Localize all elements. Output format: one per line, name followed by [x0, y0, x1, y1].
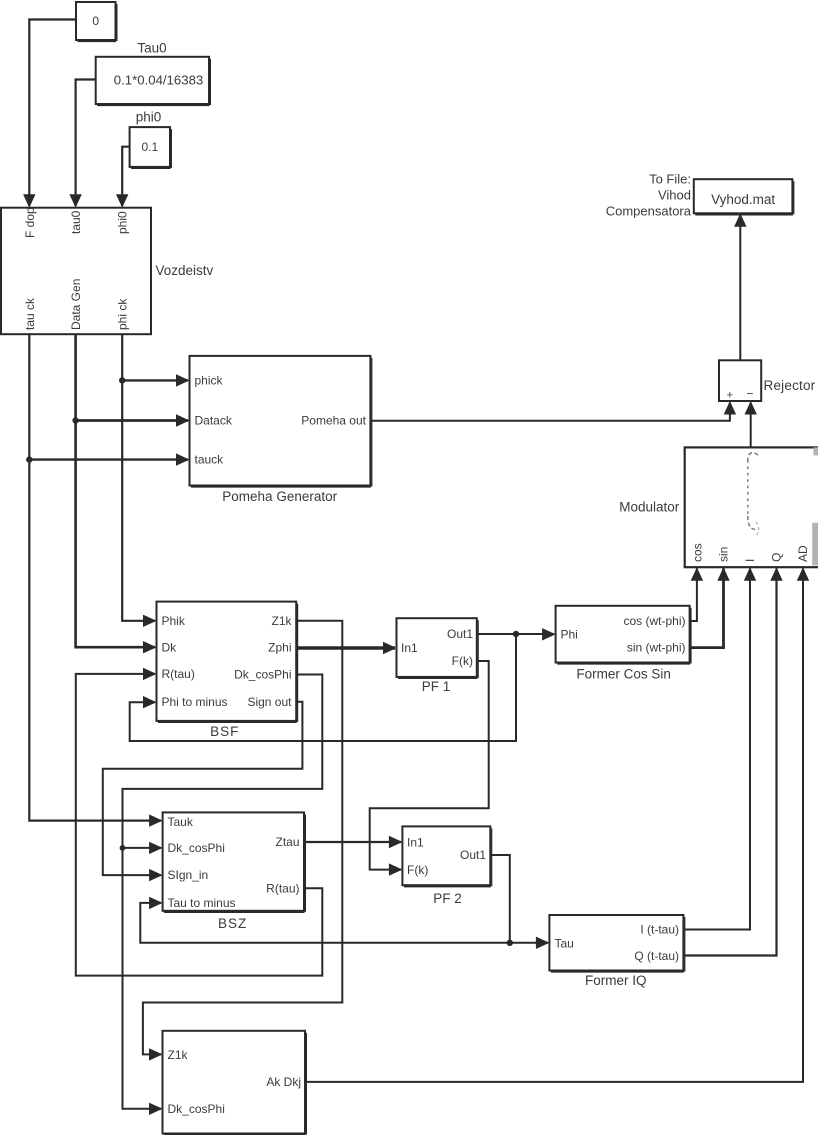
- svg-text:BSZ: BSZ: [218, 916, 247, 931]
- svg-text:Pomeha Generator: Pomeha Generator: [222, 489, 337, 504]
- svg-text:−: −: [746, 387, 753, 401]
- wire BSF Dk_cosPhi to BSZ and Ak Dkj block: [123, 675, 323, 1116]
- svg-text:Dk: Dk: [162, 640, 178, 654]
- svg-text:Vozdeistv: Vozdeistv: [156, 263, 214, 278]
- wire branch Dk_cosPhi to BSZ Dk_cosPhi: [123, 842, 163, 854]
- sum block Rejector with + - inputs: [719, 360, 816, 401]
- svg-text:R(tau): R(tau): [266, 881, 299, 895]
- Modulator dashed waveform icon: [748, 453, 759, 535]
- svg-text:I (t-tau): I (t-tau): [640, 922, 679, 936]
- svg-text:Tau0: Tau0: [137, 41, 166, 56]
- svg-text:Z1k: Z1k: [271, 614, 292, 628]
- wire Vozdeistv phi ck trunk to BSF Phik: [122, 334, 156, 627]
- junction node PF2 Out1: [507, 940, 513, 946]
- svg-text:Sign out: Sign out: [247, 695, 292, 709]
- junction node phi ck: [119, 377, 125, 383]
- svg-text:Out1: Out1: [447, 627, 473, 641]
- svg-text:sin: sin: [717, 547, 731, 562]
- wire Former IQ Q to Modulator Q: [683, 567, 782, 955]
- svg-text:Modulator: Modulator: [619, 500, 680, 515]
- svg-text:Ak Dkj: Ak Dkj: [266, 1075, 301, 1089]
- subsystem PF 2: [402, 826, 491, 906]
- wire PF1 F(k) to PF2 F(k): [370, 661, 489, 876]
- svg-text:Rejector: Rejector: [764, 378, 816, 393]
- svg-text:Dk_cosPhi: Dk_cosPhi: [234, 668, 291, 682]
- junction node PF1 Out1: [513, 631, 519, 637]
- junction node Dk_cosPhi: [120, 845, 126, 851]
- svg-text:I: I: [743, 559, 757, 562]
- wire Former Cos Sin cos to Modulator cos: [690, 567, 704, 621]
- svg-text:PF 2: PF 2: [433, 891, 462, 906]
- svg-text:Dk_cosPhi: Dk_cosPhi: [168, 1102, 225, 1116]
- svg-text:phick: phick: [195, 374, 224, 388]
- wire Modulator out to Rejector minus: [745, 401, 757, 447]
- wire Vozdeistv Data Gen trunk to BSF Dk: [76, 334, 157, 653]
- To File block Vyhod.mat: [694, 179, 794, 215]
- wire Vozdeistv tau ck trunk to BSZ Tauk: [29, 334, 162, 827]
- svg-text:Vihod: Vihod: [658, 188, 691, 203]
- svg-text:tau0: tau0: [69, 210, 83, 234]
- svg-text:Out1: Out1: [460, 848, 486, 862]
- svg-text:Former Cos Sin: Former Cos Sin: [576, 667, 671, 682]
- wire Ak Dkj to Modulator AD: [305, 567, 809, 1082]
- svg-text:Data Gen: Data Gen: [69, 279, 83, 330]
- wire BSZ R(tau) feedback to BSF R(tau): [76, 668, 322, 976]
- subsystem Former Cos Sin: [556, 606, 691, 682]
- wire branch PF1 Out1 feedback to BSF Phi to minus: [130, 634, 516, 741]
- subsystem Ak Dkj (bottom block): [163, 1031, 307, 1135]
- svg-text:Phi to minus: Phi to minus: [162, 695, 228, 709]
- subsystem Pomeha Generator: [190, 356, 372, 504]
- wire Former IQ I to Modulator I: [683, 567, 756, 929]
- svg-text:Phik: Phik: [162, 614, 186, 628]
- svg-text:Former IQ: Former IQ: [585, 973, 647, 988]
- svg-text:F dop: F dop: [23, 207, 37, 238]
- wire BSF Zphi to PF1 In1: [296, 642, 396, 654]
- scrollbar fragment top: [813, 447, 818, 455]
- wire Rejector to Vyhod.mat: [734, 213, 746, 360]
- wire constant 0 to Vozdeistv F dop: [23, 20, 76, 208]
- svg-text:To File:: To File:: [649, 172, 691, 187]
- svg-text:Compensatora: Compensatora: [606, 204, 692, 219]
- svg-text:F(k): F(k): [407, 863, 428, 877]
- constant block Tau0 value 0.1*0.04/16383: [96, 41, 211, 106]
- svg-text:Z1k: Z1k: [168, 1048, 189, 1062]
- svg-text:phi0: phi0: [136, 110, 162, 125]
- svg-text:PF 1: PF 1: [422, 679, 451, 694]
- svg-text:R(tau): R(tau): [162, 667, 195, 681]
- svg-text:F(k): F(k): [452, 654, 473, 668]
- svg-text:sin (wt-phi): sin (wt-phi): [627, 641, 686, 655]
- subsystem Former IQ: [549, 915, 684, 988]
- svg-text:0.1*0.04/16383: 0.1*0.04/16383: [114, 73, 203, 88]
- wire PF2 Out1 to Former IQ Tau: [490, 855, 549, 949]
- svg-text:+: +: [727, 390, 733, 402]
- svg-text:SIgn_in: SIgn_in: [168, 868, 209, 882]
- svg-text:0: 0: [92, 14, 99, 28]
- svg-text:cos: cos: [691, 543, 705, 562]
- svg-text:tauck: tauck: [195, 453, 225, 467]
- wire branch PF2 Out1 feedback to BSZ Tau to minus: [140, 897, 510, 943]
- svg-text:Dk_cosPhi: Dk_cosPhi: [168, 841, 225, 855]
- svg-text:Phi: Phi: [561, 627, 578, 641]
- svg-text:Vyhod.mat: Vyhod.mat: [711, 192, 775, 207]
- wire Pomeha out to Rejector plus: [370, 401, 736, 421]
- wire branch tau ck to Pomeha tauck: [29, 453, 189, 465]
- svg-text:0.1: 0.1: [141, 140, 158, 154]
- svg-text:phi ck: phi ck: [116, 298, 130, 330]
- junction node tau ck: [26, 456, 32, 462]
- svg-text:Q (t-tau): Q (t-tau): [634, 949, 679, 963]
- wire branch phi ck to Pomeha phick: [122, 374, 189, 386]
- constant block phi0 value 0.1: [130, 110, 172, 169]
- subsystem PF 1: [397, 618, 479, 694]
- wire BSF Sign out to BSZ SIgn_in: [103, 702, 303, 882]
- wire BSZ Ztau to PF2 In1: [304, 836, 402, 848]
- subsystem BSZ: [163, 812, 306, 931]
- svg-text:cos (wt-phi): cos (wt-phi): [623, 614, 685, 628]
- svg-text:Tauk: Tauk: [168, 815, 194, 829]
- svg-text:Q: Q: [770, 553, 784, 562]
- svg-text:phi0: phi0: [116, 211, 130, 234]
- subsystem Vozdeistv: [1, 207, 214, 334]
- wire branch Data Gen to Pomeha Datack: [76, 414, 190, 426]
- junction node Data Gen: [72, 417, 78, 423]
- To File annotation text: [606, 172, 692, 219]
- constant block 0: [76, 2, 117, 41]
- svg-text:AD: AD: [796, 545, 810, 562]
- svg-text:Ztau: Ztau: [275, 835, 299, 849]
- subsystem Modulator: [619, 447, 818, 567]
- svg-text:In1: In1: [401, 641, 418, 655]
- svg-text:Zphi: Zphi: [268, 640, 291, 654]
- svg-text:tau ck: tau ck: [23, 297, 37, 330]
- svg-text:In1: In1: [407, 836, 424, 850]
- wire phi0 to Vozdeistv phi0: [116, 147, 130, 208]
- scrollbar fragment right: [812, 523, 818, 566]
- wire Tau0 to Vozdeistv tau0: [69, 80, 95, 208]
- svg-text:Tau to minus: Tau to minus: [168, 896, 236, 910]
- wire BSF Z1k to Ak Dkj block Z1k: [143, 621, 342, 1061]
- svg-text:Pomeha out: Pomeha out: [301, 414, 366, 428]
- subsystem BSF: [157, 602, 298, 739]
- wire Former Cos Sin sin to Modulator sin: [690, 567, 730, 647]
- wire PF1 Out1 to Former Cos Sin Phi: [477, 628, 556, 640]
- svg-text:BSF: BSF: [210, 724, 239, 739]
- svg-text:Tau: Tau: [555, 936, 574, 950]
- svg-text:Datack: Datack: [195, 414, 233, 428]
